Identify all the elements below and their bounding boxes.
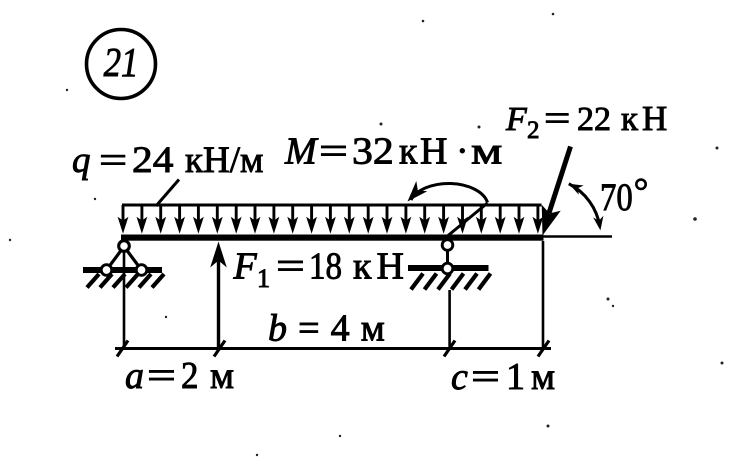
svg-text:2: 2 — [527, 117, 540, 144]
svg-text:M: M — [284, 131, 319, 173]
svg-text:=: = — [276, 245, 305, 287]
svg-text:м: м — [210, 355, 234, 397]
svg-text:q: q — [72, 140, 91, 181]
svg-text:24: 24 — [132, 140, 174, 181]
svg-text:32: 32 — [352, 129, 394, 172]
svg-text:·: · — [456, 131, 469, 173]
svg-text:кН/м: кН/м — [185, 140, 263, 181]
svg-text:F: F — [505, 101, 528, 138]
svg-text:1: 1 — [257, 264, 270, 293]
svg-text:=: = — [99, 139, 127, 180]
svg-text:b = 4 м: b = 4 м — [268, 308, 386, 350]
svg-text:=: = — [319, 130, 348, 172]
svg-text:18: 18 — [309, 244, 342, 287]
svg-text:c: c — [451, 356, 468, 398]
svg-text:кН: кН — [399, 131, 450, 173]
svg-text:м: м — [471, 130, 502, 172]
svg-text:F: F — [233, 246, 258, 288]
svg-text:21: 21 — [104, 40, 139, 85]
svg-text:2: 2 — [181, 354, 198, 397]
svg-text:22: 22 — [577, 101, 611, 138]
svg-text:м: м — [531, 356, 555, 398]
svg-text:70: 70 — [600, 175, 633, 218]
svg-text:=: = — [544, 99, 570, 139]
svg-text:=: = — [471, 355, 500, 397]
svg-text:a: a — [125, 355, 144, 397]
svg-text:=: = — [147, 354, 176, 396]
svg-text:1: 1 — [506, 356, 525, 398]
svg-text:кН: кН — [621, 99, 671, 138]
svg-text:кН: кН — [353, 246, 409, 288]
